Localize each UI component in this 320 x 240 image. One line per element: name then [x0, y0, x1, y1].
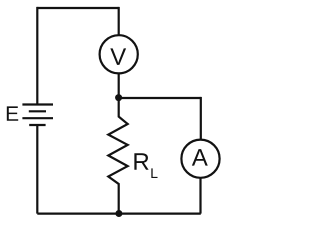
node: junction dot between voltmeter, resistor and ammeter branch [115, 94, 122, 101]
wire: middle horizontal from node to ammeter branch [119, 97, 201, 99]
label A (ammeter) [192, 149, 208, 166]
wire: top horizontal from battery branch to voltmeter branch [37, 7, 118, 9]
wire: right vertical from ammeter down to bottom wire [199, 178, 201, 214]
label RL subscript L [151, 168, 157, 178]
resistor RL (zigzag) between node A and bottom junction [108, 96, 127, 214]
wire: left vertical from battery bottom plate down to bottom wire [36, 125, 38, 214]
wire: bottom horizontal from battery branch to ammeter branch [37, 213, 201, 215]
battery E: plate 4 (short, bottom) [29, 124, 45, 126]
battery E: plate 1 (long, top) [22, 103, 53, 105]
node: bottom junction dot between resistor and bottom wire [115, 210, 122, 217]
label E (battery value) [7, 106, 18, 120]
label V (voltmeter) [110, 48, 126, 65]
wire: voltmeter stub from top wire down to voltmeter [118, 7, 120, 35]
ammeter A (meter circle) [181, 140, 219, 178]
label RL (load resistor reference) [134, 153, 148, 170]
wire: right vertical from middle wire down to ammeter [200, 97, 202, 140]
wire: left vertical from top wire down to battery top plate [36, 7, 38, 105]
battery E: plate 2 (short) [29, 110, 46, 112]
battery E: plate 3 (long) [22, 117, 53, 119]
voltmeter V (meter circle) [100, 35, 138, 73]
wire: voltmeter stub from voltmeter down to node A [118, 74, 120, 99]
